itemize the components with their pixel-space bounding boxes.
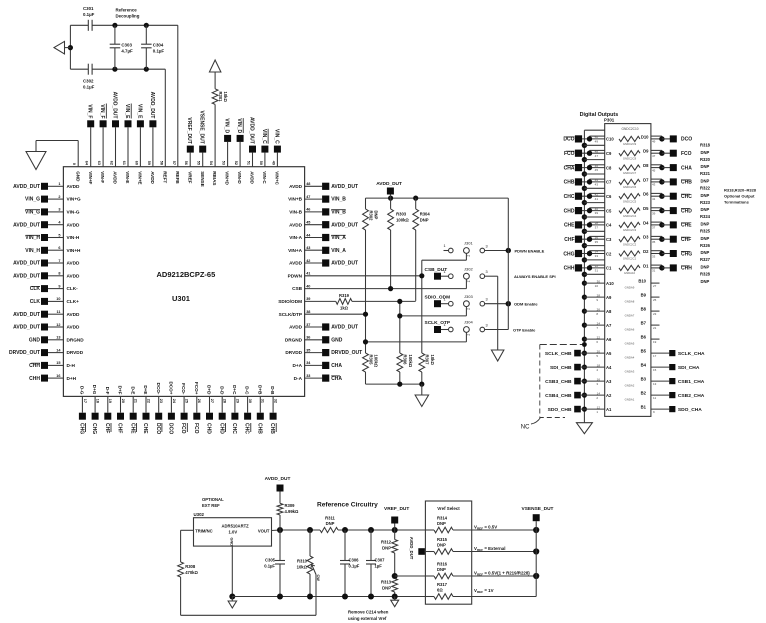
svg-text:CHE: CHE [142,423,148,434]
svg-text:46: 46 [306,208,310,212]
svg-text:DCO: DCO [168,423,174,434]
svg-text:A4: A4 [606,365,612,370]
svg-text:DNP: DNP [437,521,446,526]
svg-text:AVDD_DUT: AVDD_DUT [409,537,414,560]
svg-text:DRVDD_OUT: DRVDD_OUT [9,350,40,356]
svg-text:GNDA8: GNDA8 [625,300,635,304]
svg-text:10: 10 [595,284,599,288]
svg-text:R313: R313 [381,580,392,585]
svg-text:CHF: CHF [104,423,110,433]
svg-text:2: 2 [467,308,471,310]
svg-text:Terminations: Terminations [724,200,750,205]
svg-text:C1: C1 [606,266,612,271]
svg-text:R321: R321 [700,171,711,176]
svg-text:AVDD_DUT: AVDD_DUT [331,325,358,331]
svg-text:VIN_E: VIN_E [124,104,130,119]
svg-text:VIN_A: VIN_A [331,248,346,254]
svg-text:DRGND: DRGND [67,337,85,342]
svg-text:ALWAYS ENABLE SPI: ALWAYS ENABLE SPI [514,274,556,279]
svg-text:D-G: D-G [80,386,85,395]
svg-text:CSB1_CHA: CSB1_CHA [678,379,705,385]
svg-text:R318,R320–R328: R318,R320–R328 [724,188,757,193]
svg-text:R304: R304 [420,212,431,217]
svg-text:19: 19 [653,340,657,344]
svg-text:9: 9 [58,284,60,288]
svg-text:P301: P301 [604,118,615,123]
svg-text:35: 35 [306,348,310,352]
svg-text:NC: NC [521,425,530,431]
svg-text:GNDC2C9: GNDC2C9 [623,142,637,146]
svg-text:AVDD_DUT: AVDD_DUT [149,92,155,119]
svg-text:AVDD_DUT: AVDD_DUT [13,325,40,331]
svg-text:R316: R316 [437,562,448,567]
svg-text:25: 25 [653,298,657,302]
svg-text:57: 57 [172,161,176,165]
svg-text:VIN_F: VIN_F [87,104,93,118]
svg-text:VIN-F: VIN-F [100,171,105,183]
svg-text:DNP: DNP [701,222,710,227]
svg-text:50: 50 [595,135,599,139]
svg-text:CHF: CHF [681,237,691,243]
svg-text:CLK: CLK [30,286,41,292]
svg-text:40: 40 [595,207,599,211]
svg-text:30: 30 [248,399,252,403]
svg-text:SDI_CHA: SDI_CHA [678,365,700,371]
svg-text:CLK-: CLK- [67,286,79,291]
svg-text:11: 11 [653,396,656,400]
svg-text:FCO: FCO [180,423,186,434]
svg-text:CHG: CHG [563,251,574,257]
svg-text:12: 12 [597,405,601,409]
svg-text:41: 41 [306,272,310,276]
svg-text:D2: D2 [643,249,649,254]
svg-text:D+A: D+A [292,363,302,368]
svg-text:SCLK_OTP: SCLK_OTP [425,320,451,326]
svg-text:VIN+B: VIN+B [288,197,303,202]
svg-text:3: 3 [485,245,487,249]
svg-text:3: 3 [485,270,487,274]
svg-text:AVDD_DUT: AVDD_DUT [249,117,255,144]
svg-text:470kΩ: 470kΩ [185,570,198,575]
svg-text:AVDD: AVDD [67,312,81,317]
svg-text:AVDD_DUT: AVDD_DUT [331,184,358,190]
svg-text:C8: C8 [606,165,612,170]
svg-text:VIN_E: VIN_E [136,104,142,119]
svg-text:10kΩ: 10kΩ [223,92,228,103]
svg-text:R310: R310 [297,559,308,564]
svg-text:C4: C4 [606,223,612,228]
svg-text:VIN_F: VIN_F [99,104,105,118]
svg-text:B4: B4 [641,363,647,368]
svg-text:D+D: D+D [207,385,212,395]
svg-text:DCO: DCO [681,137,692,143]
svg-text:1µF: 1µF [375,564,383,569]
svg-text:16: 16 [597,377,601,381]
svg-text:B6: B6 [641,335,647,340]
svg-text:D+F: D+F [118,386,123,395]
svg-text:R327: R327 [700,257,711,262]
svg-text:55: 55 [197,161,201,165]
svg-text:D6: D6 [643,192,649,197]
svg-text:0.1µF: 0.1µF [264,564,275,569]
svg-text:REFT: REFT [162,171,167,183]
svg-text:R325: R325 [700,229,711,234]
svg-text:AVDD_DUT: AVDD_DUT [112,92,118,119]
svg-text:GND: GND [29,337,41,343]
svg-text:OPTIONAL: OPTIONAL [202,497,224,502]
svg-text:10kΩ: 10kΩ [297,565,308,570]
svg-text:12: 12 [56,323,60,327]
svg-text:48: 48 [306,182,310,186]
svg-text:4.99kΩ: 4.99kΩ [285,509,299,514]
svg-text:27: 27 [210,399,214,403]
svg-text:1: 1 [443,244,445,248]
svg-text:CHE: CHE [564,223,575,229]
svg-text:AVDD: AVDD [67,325,81,330]
svg-text:D+C: D+C [232,385,237,395]
svg-text:VIN+C: VIN+C [275,171,280,185]
svg-text:13: 13 [653,382,657,386]
svg-text:R320: R320 [700,157,711,162]
svg-text:A10: A10 [606,281,614,286]
svg-text:VIN-D: VIN-D [237,171,242,184]
svg-text:VIN+E: VIN+E [138,171,143,184]
svg-text:CHA: CHA [331,363,342,369]
svg-text:58: 58 [159,161,163,165]
svg-text:1: 1 [443,297,445,301]
svg-text:2: 2 [58,195,60,199]
svg-text:AVDD: AVDD [289,325,303,330]
svg-text:GNDC2C3: GNDC2C3 [623,228,637,232]
svg-text:26: 26 [197,399,201,403]
svg-text:B7: B7 [641,321,647,326]
svg-text:D+H: D+H [67,376,77,381]
svg-text:CHH: CHH [564,266,575,272]
svg-text:D1: D1 [643,263,649,268]
svg-text:Optional Output: Optional Output [724,194,755,199]
svg-text:37: 37 [306,323,310,327]
svg-text:15: 15 [653,368,657,372]
svg-text:SENSE: SENSE [200,171,205,187]
svg-text:61: 61 [122,161,126,165]
svg-text:63: 63 [97,161,101,165]
svg-text:AD9212BCPZ-65: AD9212BCPZ-65 [157,270,216,279]
svg-text:CLK+: CLK+ [67,299,80,304]
svg-text:R326: R326 [700,243,711,248]
svg-text:17: 17 [653,354,657,358]
svg-text:CHH: CHH [29,363,40,369]
svg-text:VIN+H: VIN+H [67,248,82,253]
svg-text:D+B: D+B [257,385,262,395]
svg-text:D+G: D+G [92,385,97,395]
svg-text:DNP: DNP [701,193,710,198]
svg-text:24: 24 [597,321,601,325]
svg-text:A7: A7 [606,323,612,328]
svg-text:AVDD_DUT: AVDD_DUT [13,273,40,279]
svg-text:CHH: CHH [29,376,40,382]
svg-text:B9: B9 [641,293,647,298]
svg-text:CSB3_CHB: CSB3_CHB [545,379,572,385]
svg-text:A5: A5 [606,351,612,356]
svg-text:46: 46 [595,164,599,168]
svg-text:VIN-C: VIN-C [262,171,267,184]
svg-text:3: 3 [485,298,487,302]
svg-text:35: 35 [595,240,599,244]
svg-text:7: 7 [58,259,60,263]
svg-text:CLK: CLK [30,299,41,305]
svg-text:43: 43 [652,183,656,187]
svg-text:C6: C6 [606,194,612,199]
svg-text:52: 52 [234,161,238,165]
svg-text:GNDC2C5: GNDC2C5 [623,199,637,203]
svg-text:AVDD: AVDD [250,171,255,184]
svg-text:VREF_DUT: VREF_DUT [186,117,192,143]
svg-text:EXT REF: EXT REF [202,503,220,508]
svg-text:VSENSE_DUT: VSENSE_DUT [199,110,205,143]
svg-text:CHB: CHB [564,180,575,186]
svg-text:VSENSE_DUT: VSENSE_DUT [522,506,554,512]
svg-text:FCO: FCO [193,423,199,434]
svg-text:B10: B10 [638,279,646,284]
svg-text:37: 37 [652,226,656,230]
svg-text:DCO+: DCO+ [169,381,174,394]
svg-text:CHA: CHA [564,165,575,171]
svg-text:21: 21 [653,326,657,330]
svg-text:SDO_CHB: SDO_CHB [548,407,572,413]
svg-text:DNP: DNP [701,150,710,155]
svg-text:GNDC2C6: GNDC2C6 [623,185,637,189]
svg-text:R314: R314 [437,516,448,521]
svg-text:42: 42 [595,192,599,196]
svg-text:36: 36 [595,235,599,239]
svg-text:DNP: DNP [701,250,710,255]
svg-text:VOUT: VOUT [258,528,270,533]
svg-text:60: 60 [134,161,138,165]
svg-text:FCO+: FCO+ [194,382,199,395]
svg-text:GND: GND [331,337,343,343]
svg-text:J302: J302 [464,266,473,271]
svg-text:DNP: DNP [437,542,446,547]
svg-text:R322: R322 [700,186,711,191]
svg-text:GNDA2: GNDA2 [625,384,635,388]
svg-text:CHD: CHD [206,423,212,434]
svg-text:37: 37 [595,226,599,230]
svg-text:AVDD: AVDD [113,171,118,184]
svg-text:2: 2 [467,255,471,257]
svg-text:D-C: D-C [245,386,250,395]
svg-text:VIN-H: VIN-H [67,235,80,240]
svg-text:C301: C301 [83,6,94,11]
svg-text:34: 34 [595,250,599,254]
svg-text:SDI_CHB: SDI_CHB [550,365,572,371]
svg-text:14: 14 [597,391,601,395]
svg-text:38: 38 [595,221,599,225]
svg-text:8: 8 [58,272,60,276]
svg-text:31: 31 [595,269,599,273]
svg-text:CSB4_CHB: CSB4_CHB [545,393,572,399]
svg-text:40: 40 [306,284,310,288]
svg-text:47: 47 [595,154,599,158]
svg-text:GND: GND [230,538,234,547]
svg-text:GND: GND [75,171,80,182]
svg-text:51: 51 [247,161,251,165]
svg-text:SDO_CHA: SDO_CHA [678,407,702,413]
svg-text:21: 21 [134,399,138,403]
svg-text:CHA: CHA [681,165,692,171]
svg-text:AVDD_DUT: AVDD_DUT [13,222,40,228]
svg-text:J301: J301 [464,241,473,246]
svg-text:CHB: CHB [256,423,262,434]
svg-text:AVDD: AVDD [67,261,81,266]
svg-text:CHB: CHB [269,423,275,434]
svg-text:36: 36 [306,336,310,340]
svg-text:100kΩ: 100kΩ [374,355,379,368]
svg-text:GNDA5: GNDA5 [625,342,635,346]
svg-text:47: 47 [652,154,656,158]
svg-text:CHC: CHC [681,194,692,200]
svg-text:AVDD: AVDD [289,184,303,189]
svg-text:GNDC2C1: GNDC2C1 [623,257,637,261]
svg-text:CHH: CHH [681,266,692,272]
svg-text:18: 18 [96,399,100,403]
svg-text:R309: R309 [285,503,296,508]
svg-text:DNP: DNP [437,567,446,572]
svg-text:22: 22 [146,399,150,403]
svg-text:D-H: D-H [67,363,76,368]
svg-text:D-D: D-D [219,386,224,395]
svg-text:1: 1 [443,270,445,274]
svg-text:42: 42 [306,259,310,263]
svg-text:SDIO/ODM: SDIO/ODM [278,299,302,304]
svg-text:3: 3 [485,324,487,328]
svg-text:32: 32 [595,264,599,268]
svg-text:CHG: CHG [681,251,692,257]
svg-text:VIN_D: VIN_D [236,118,242,133]
svg-text:DNP: DNP [701,207,710,212]
svg-text:SCLK_CHA: SCLK_CHA [678,351,705,357]
svg-text:U302: U302 [194,512,205,517]
svg-text:D+E: D+E [143,385,148,394]
svg-text:SCLK_CHB: SCLK_CHB [545,351,572,357]
svg-text:100kΩ: 100kΩ [396,218,409,223]
svg-text:DNP: DNP [701,179,710,184]
svg-text:R307: R307 [425,355,430,366]
svg-text:DNP: DNP [420,218,429,223]
svg-text:R306: R306 [403,355,408,366]
svg-text:DNP: DNP [382,586,391,591]
svg-text:VIN+G: VIN+G [67,197,82,202]
svg-text:41: 41 [595,197,599,201]
svg-text:10: 10 [56,297,60,301]
svg-text:43: 43 [306,246,310,250]
svg-text:C7: C7 [606,180,612,185]
svg-text:D3: D3 [643,235,649,240]
svg-text:B2: B2 [641,391,647,396]
svg-text:GNDA9: GNDA9 [625,286,635,290]
svg-text:VIN-G: VIN-G [67,210,80,215]
svg-text:B3: B3 [641,377,647,382]
svg-text:A2: A2 [606,393,612,398]
svg-text:DNP: DNP [701,164,710,169]
svg-text:1.0V: 1.0V [229,530,238,535]
svg-text:CHF: CHF [117,423,123,433]
svg-text:AVDD: AVDD [289,261,303,266]
svg-text:CHB: CHB [681,180,692,186]
svg-text:A9: A9 [606,295,612,300]
svg-text:R317: R317 [437,582,448,587]
svg-text:AVDD_DUT: AVDD_DUT [331,222,358,228]
svg-text:FCO-: FCO- [181,383,186,395]
svg-text:0.1µF: 0.1µF [153,49,165,54]
svg-text:VIN+D: VIN+D [225,171,230,185]
svg-text:11: 11 [56,310,60,314]
svg-text:C305: C305 [265,558,276,563]
svg-text:GNDA10: GNDA10 [624,271,636,275]
svg-text:0: 0 [72,163,76,165]
svg-text:AVDD_DUT: AVDD_DUT [376,181,402,187]
svg-text:62: 62 [110,161,114,165]
svg-text:A1: A1 [606,407,612,412]
svg-text:VREF_DUT: VREF_DUT [384,506,409,512]
svg-text:A6: A6 [606,337,612,342]
svg-text:Vref Select: Vref Select [437,506,460,511]
svg-text:C307: C307 [375,558,386,563]
svg-text:DCO: DCO [563,137,574,143]
svg-text:DNP: DNP [326,521,335,526]
svg-text:3: 3 [58,208,60,212]
svg-text:GNDC2C4: GNDC2C4 [623,214,637,218]
svg-text:R303: R303 [396,212,407,217]
svg-text:AVDD: AVDD [67,273,81,278]
svg-text:R318: R318 [700,143,711,148]
svg-text:SCLK/DTP: SCLK/DTP [279,312,302,317]
svg-text:R305: R305 [368,355,373,366]
svg-text:13: 13 [56,336,60,340]
svg-text:CHE: CHE [129,423,135,434]
svg-text:GNDC2C8: GNDC2C8 [623,156,637,160]
svg-text:R311: R311 [325,516,335,521]
svg-text:56: 56 [184,161,188,165]
svg-text:VIN+F: VIN+F [88,171,93,184]
svg-text:CSB: CSB [292,286,303,291]
svg-text:31: 31 [261,399,265,403]
svg-text:6Ω: 6Ω [437,587,443,592]
svg-text:VIN_G: VIN_G [25,210,40,216]
svg-text:0.1µF: 0.1µF [83,12,95,17]
svg-text:DRVDD_OUT: DRVDD_OUT [331,350,362,356]
svg-text:D-F: D-F [105,387,110,395]
svg-text:ADR510ARTZ: ADR510ARTZ [222,524,250,529]
svg-text:AVDD_DUT: AVDD_DUT [265,476,291,482]
svg-text:R308: R308 [185,564,196,569]
svg-text:Decoupling: Decoupling [116,13,140,18]
svg-text:C9: C9 [606,151,612,156]
svg-text:19: 19 [108,399,112,403]
svg-text:FCO: FCO [564,151,575,157]
svg-text:C306: C306 [349,558,360,563]
svg-text:AVDD_DUT: AVDD_DUT [13,312,40,318]
svg-text:GNDA3: GNDA3 [625,370,635,374]
svg-text:VIN_C: VIN_C [261,129,267,144]
svg-text:CHD: CHD [681,208,692,214]
svg-text:VIN-A: VIN-A [289,235,302,240]
svg-text:33: 33 [652,254,656,258]
svg-text:6: 6 [58,246,60,250]
svg-text:VIN_H: VIN_H [25,248,40,254]
svg-text:AVDD_DUT: AVDD_DUT [331,261,358,267]
svg-text:49: 49 [595,140,599,144]
svg-text:DRGND: DRGND [285,337,303,342]
